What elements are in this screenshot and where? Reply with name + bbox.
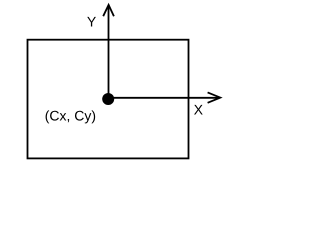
label (Cx, Cy) (center coordinates) — [46, 110, 96, 123]
rectangle (object bounding box) — [28, 40, 189, 159]
wire Y-axis shaft — [108, 6, 110, 100]
wire X-axis shaft — [108, 97, 220, 99]
X-axis arrowhead — [208, 92, 221, 102]
node center dot at (Cx, Cy) — [102, 93, 114, 105]
Y-axis arrowhead — [103, 5, 114, 16]
label X (axis name) — [194, 105, 203, 115]
label Y (axis name) — [87, 17, 96, 27]
